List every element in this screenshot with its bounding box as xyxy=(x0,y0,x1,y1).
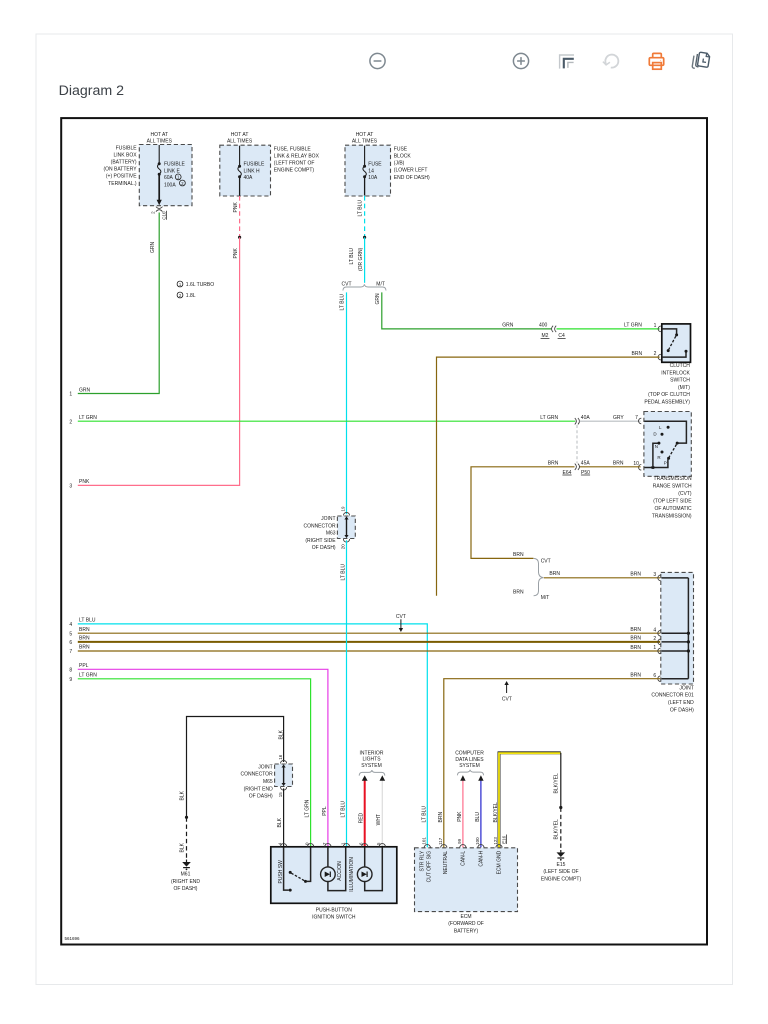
svg-text:7: 7 xyxy=(69,649,72,655)
fusible link box B1 header xyxy=(147,132,173,144)
svg-text:PNK: PNK xyxy=(457,811,463,822)
wire GRN M/T branch xyxy=(382,292,551,329)
wire BRN row6 thick to E01 pin 2 xyxy=(78,641,660,643)
svg-text:CONNECTOR: CONNECTOR xyxy=(241,772,274,778)
svg-text:ALL TIMES: ALL TIMES xyxy=(227,138,253,144)
TRS gear position contacts xyxy=(653,425,669,465)
svg-text:GRN: GRN xyxy=(375,293,381,305)
svg-text:40A: 40A xyxy=(581,415,591,421)
svg-text:LINK E: LINK E xyxy=(164,169,181,175)
switch pin arcs xyxy=(281,844,386,847)
svg-text:ALL TIMES: ALL TIMES xyxy=(147,138,173,144)
wire BRN merged to E01 pin 3 xyxy=(544,577,660,579)
svg-text:60A: 60A xyxy=(164,175,174,181)
svg-text:RANGE SWITCH: RANGE SWITCH xyxy=(653,484,692,490)
joint connector M63 bus arrow xyxy=(344,516,348,538)
ground M61 caption xyxy=(171,872,200,893)
svg-text:CONNECTOR E01: CONNECTOR E01 xyxy=(651,693,694,699)
svg-text:CAN-L: CAN-L xyxy=(460,851,466,866)
svg-text:TERMINAL.): TERMINAL.) xyxy=(108,181,137,187)
joint connector E01 box xyxy=(661,572,694,684)
wire BRN row5 to E01 pin 4 xyxy=(78,632,660,634)
svg-text:8: 8 xyxy=(69,667,72,673)
wire BRN 45A to TRS pin10 xyxy=(580,466,641,468)
svg-text:99: 99 xyxy=(457,838,462,844)
TRS internal common path xyxy=(644,421,686,469)
svg-text:LT GRN: LT GRN xyxy=(540,415,558,421)
fuse 14 value labels xyxy=(368,161,382,181)
toolbar copy-pages button xyxy=(692,51,710,70)
svg-text:GRN: GRN xyxy=(150,242,156,254)
ground E15 caption xyxy=(541,862,582,883)
clutch interlock switch caption xyxy=(644,363,690,406)
svg-text:BRN: BRN xyxy=(630,572,641,578)
fusible link box B1 (battery) xyxy=(139,145,192,206)
svg-text:CVT: CVT xyxy=(342,281,352,287)
junction splice on BLK/YEL xyxy=(559,806,562,809)
svg-text:LT BLU: LT BLU xyxy=(340,294,346,311)
wire BLU CAN-H up arrow xyxy=(478,775,483,847)
svg-text:(BATTERY): (BATTERY) xyxy=(111,160,137,166)
svg-text:M63: M63 xyxy=(326,531,336,537)
svg-text:LT BLU: LT BLU xyxy=(340,801,346,818)
svg-text:2: 2 xyxy=(653,636,656,642)
svg-text:BLK/YEL: BLK/YEL xyxy=(554,773,560,794)
svg-text:CLUTCH: CLUTCH xyxy=(670,363,691,369)
svg-text:JOINT: JOINT xyxy=(258,764,272,770)
fusible link H value labels xyxy=(244,161,266,181)
svg-text:20: 20 xyxy=(341,544,346,550)
joint connector M65 bottom arc xyxy=(281,787,287,790)
svg-text:HOT AT: HOT AT xyxy=(150,132,168,138)
toolbar undo button (disabled) xyxy=(603,55,618,68)
svg-text:RED: RED xyxy=(359,812,365,823)
svg-text:9: 9 xyxy=(69,677,72,683)
wire BRN CVT branch from 45A down and to merge xyxy=(471,467,575,559)
svg-text:CVT: CVT xyxy=(541,558,551,564)
svg-text:1: 1 xyxy=(654,323,657,329)
clutch interlock switch U1 box xyxy=(662,324,691,362)
wire PNK solid down to row 3 xyxy=(78,237,240,485)
joint connector M65 top arc xyxy=(281,760,287,763)
svg-text:STR RLY: STR RLY xyxy=(419,850,425,871)
wire LT GRN row9 down to switch pin 0 xyxy=(78,679,311,847)
svg-text:(OR GRN): (OR GRN) xyxy=(358,247,364,271)
joint connector M65 bus arrow xyxy=(282,764,286,786)
svg-text:ALL TIMES: ALL TIMES xyxy=(352,138,378,144)
svg-text:ECM GND: ECM GND xyxy=(496,850,502,874)
svg-text:FUSE: FUSE xyxy=(368,161,382,167)
interior lights brace xyxy=(359,770,385,776)
interior lights system caption xyxy=(360,750,384,769)
svg-text:HOT AT: HOT AT xyxy=(356,132,374,138)
svg-text:LT GRN: LT GRN xyxy=(624,323,642,329)
svg-text:INTERIOR: INTERIOR xyxy=(360,750,384,756)
svg-text:LINK & RELAY BOX: LINK & RELAY BOX xyxy=(274,154,320,160)
svg-text:BRN: BRN xyxy=(548,460,559,466)
svg-text:PPL: PPL xyxy=(79,663,89,669)
svg-text:GRN: GRN xyxy=(79,387,91,393)
svg-text:TRANSMISSION): TRANSMISSION) xyxy=(652,514,692,520)
svg-text:FUSIBLE: FUSIBLE xyxy=(164,161,186,167)
wire LT BLU dashed below B3 xyxy=(364,196,366,237)
wire LT BLU from M63 to switch pin 1 xyxy=(346,540,348,846)
ground E15 xyxy=(557,850,566,861)
svg-text:IGNITION SWITCH: IGNITION SWITCH xyxy=(312,915,356,921)
computer data lines brace xyxy=(457,770,483,776)
svg-text:BLK: BLK xyxy=(179,842,185,852)
svg-text:BRN: BRN xyxy=(613,460,624,466)
svg-text:BRN: BRN xyxy=(630,645,641,651)
svg-text:PNK: PNK xyxy=(233,202,239,213)
svg-text:PNK: PNK xyxy=(233,248,239,259)
joint connector M65 caption xyxy=(241,764,274,799)
svg-text:PEDAL ASSEMBLY): PEDAL ASSEMBLY) xyxy=(644,400,690,406)
wire BLK switch pin4 to M65 and M61 xyxy=(187,717,284,818)
svg-text:CAN-H: CAN-H xyxy=(478,850,484,866)
E01 pin 3 stub xyxy=(662,577,689,579)
joint connector M63 caption xyxy=(303,516,336,551)
fuse block B3 right caption xyxy=(394,146,430,180)
ECM pin arcs xyxy=(424,844,502,847)
fuse relay box B2 right caption xyxy=(274,146,320,173)
split brace CVT / M/T xyxy=(343,284,386,290)
svg-text:BLK: BLK xyxy=(277,817,283,827)
svg-text:45A: 45A xyxy=(581,460,591,466)
wire LT BLU row4 to ECM pin 101 xyxy=(78,624,428,848)
push-button ignition switch U3 box xyxy=(271,847,397,904)
svg-text:BLK: BLK xyxy=(278,729,284,739)
svg-text:CUT OFF SIG: CUT OFF SIG xyxy=(426,851,432,883)
svg-text:7: 7 xyxy=(635,415,638,421)
joint connector M65 box xyxy=(275,764,293,787)
svg-text:15: 15 xyxy=(278,792,283,798)
joint connector E01 caption xyxy=(651,685,694,713)
fuse relay box B2 header xyxy=(227,132,253,144)
fusible link E value labels xyxy=(164,161,186,188)
svg-text:LT GRN: LT GRN xyxy=(79,415,97,421)
wire PNK CAN-L up arrow xyxy=(460,775,465,847)
wire RED switch pin6 up arrow xyxy=(362,775,368,846)
svg-text:3: 3 xyxy=(653,572,656,578)
svg-text:123: 123 xyxy=(493,837,498,845)
E01 pin 6 stub xyxy=(662,678,689,680)
svg-text:BRN: BRN xyxy=(513,552,524,558)
svg-text:(RIGHT SIDE: (RIGHT SIDE xyxy=(305,538,336,544)
svg-text:3: 3 xyxy=(69,484,72,490)
computer data lines caption xyxy=(455,751,484,770)
svg-text:5: 5 xyxy=(69,631,72,637)
svg-text:CVT: CVT xyxy=(396,614,406,620)
svg-text:M/T: M/T xyxy=(541,595,550,601)
svg-text:6: 6 xyxy=(69,640,72,646)
svg-text:1.8L: 1.8L xyxy=(186,293,196,299)
svg-text:LIGHTS: LIGHTS xyxy=(362,757,381,763)
svg-text:BRN: BRN xyxy=(632,351,643,357)
svg-text:BRN: BRN xyxy=(79,645,90,651)
svg-text:OF DASH): OF DASH) xyxy=(312,545,336,551)
svg-text:M61: M61 xyxy=(181,872,191,878)
ECM signal STR RLY CUT OFF SIG xyxy=(419,850,432,882)
svg-text:(ON BATTERY: (ON BATTERY xyxy=(103,167,137,173)
svg-text:FUSIBLE: FUSIBLE xyxy=(244,161,266,167)
wire LT GRN row2 to 40A connector xyxy=(78,420,575,422)
illumination lamp loop xyxy=(357,848,382,891)
svg-text:SYSTEM: SYSTEM xyxy=(361,763,382,769)
svg-text:M/T: M/T xyxy=(376,281,385,287)
svg-text:(+) POSITIVE: (+) POSITIVE xyxy=(106,174,137,180)
ECM caption xyxy=(448,914,484,935)
wire BLK M65 to switch pin 4 xyxy=(283,788,285,846)
transmission range switch U2 box xyxy=(644,412,691,477)
svg-text:Diagram 2: Diagram 2 xyxy=(59,83,125,99)
svg-text:SWITCH: SWITCH xyxy=(670,378,690,384)
svg-text:NEUTRAL: NEUTRAL xyxy=(443,851,449,875)
svg-text:ENGINE COMPT): ENGINE COMPT) xyxy=(274,168,315,174)
svg-text:(J/B): (J/B) xyxy=(394,161,405,167)
svg-text:HOT AT: HOT AT xyxy=(231,132,249,138)
svg-text:(RIGHT END: (RIGHT END xyxy=(244,786,273,792)
svg-text:N: N xyxy=(655,444,658,449)
svg-text:LT BLU: LT BLU xyxy=(421,806,427,823)
svg-text:40A: 40A xyxy=(244,175,254,181)
joint connector M63 box xyxy=(337,516,355,539)
svg-text:GRY: GRY xyxy=(613,415,624,421)
svg-text:BRN: BRN xyxy=(438,812,444,823)
fusible link box B1 left caption xyxy=(103,145,137,187)
svg-text:SYSTEM: SYSTEM xyxy=(459,763,480,769)
ECM U4 box xyxy=(415,848,518,912)
node CVT arrow label under pin6 wire xyxy=(502,681,512,702)
svg-text:P: P xyxy=(664,461,667,466)
wire PPL row8 down to switch pin 7 xyxy=(78,669,328,846)
svg-text:BRN: BRN xyxy=(79,635,90,641)
transmission range switch caption xyxy=(652,476,692,520)
svg-text:FUSE, FUSIBLE: FUSE, FUSIBLE xyxy=(274,146,312,152)
ground M61 xyxy=(182,860,191,871)
svg-text:TRANSMISSION: TRANSMISSION xyxy=(654,476,692,482)
svg-text:ACC/ON: ACC/ON xyxy=(337,861,343,881)
svg-text:LT BLU: LT BLU xyxy=(349,248,355,265)
connector M2/C4 symbol xyxy=(552,326,557,332)
wire PNK dashed below B2 xyxy=(239,196,241,237)
wire label LT BLU (OR GRN) xyxy=(349,247,364,271)
E01 pin 4 stub xyxy=(662,632,691,635)
svg-text:PNK: PNK xyxy=(79,479,90,485)
connector 40A symbol xyxy=(575,418,580,424)
svg-text:BRN: BRN xyxy=(79,627,90,633)
svg-text:4: 4 xyxy=(653,627,656,633)
svg-text:(LOWER LEFT: (LOWER LEFT xyxy=(394,168,428,174)
svg-text:ENGINE COMPT): ENGINE COMPT) xyxy=(541,876,582,882)
svg-text:FUSE: FUSE xyxy=(394,146,408,152)
svg-text:BLU: BLU xyxy=(475,812,481,822)
svg-text:OF AUTOMATIC: OF AUTOMATIC xyxy=(655,506,692,512)
svg-text:(M/T): (M/T) xyxy=(678,385,690,391)
svg-text:(TOP OF CLUTCH: (TOP OF CLUTCH xyxy=(648,392,690,398)
svg-text:(LEFT END: (LEFT END xyxy=(668,700,694,706)
svg-text:400: 400 xyxy=(539,323,548,329)
svg-text:BLOCK: BLOCK xyxy=(394,154,412,160)
joint connector M63 bottom arc xyxy=(343,539,349,542)
svg-text:10A: 10A xyxy=(368,175,378,181)
svg-text:(RIGHT END: (RIGHT END xyxy=(171,879,200,885)
svg-text:100: 100 xyxy=(475,837,480,845)
toolbar zoom-in button xyxy=(513,53,528,68)
merge brace CVT + M/T xyxy=(534,558,544,595)
wire BLK/YEL dashed to ground xyxy=(560,808,562,851)
E01 internal bus xyxy=(687,578,689,679)
svg-text:19: 19 xyxy=(341,506,346,512)
svg-text:LT BLU: LT BLU xyxy=(79,618,96,624)
connector link dashed xyxy=(576,425,578,463)
svg-text:2: 2 xyxy=(654,351,657,357)
svg-text:6: 6 xyxy=(653,673,656,679)
svg-text:BRN: BRN xyxy=(549,571,560,577)
svg-text:OF DASH): OF DASH) xyxy=(670,707,694,713)
junction splice on PNK xyxy=(238,236,241,239)
push-button ignition switch caption xyxy=(312,907,356,920)
fuse block B3 (J/B) xyxy=(345,145,391,196)
svg-text:2: 2 xyxy=(69,419,72,425)
wire BLK dashed to ground M61 xyxy=(186,817,188,859)
svg-text:GRN: GRN xyxy=(502,323,514,329)
svg-text:101: 101 xyxy=(421,837,426,845)
svg-text:(LEFT SIDE OF: (LEFT SIDE OF xyxy=(543,869,578,875)
fuse fusible link relay box B2 xyxy=(220,145,271,196)
svg-text:BRN: BRN xyxy=(513,590,524,596)
svg-text:117: 117 xyxy=(438,837,443,845)
svg-text:BLK/YEL: BLK/YEL xyxy=(493,802,499,823)
svg-text:E16: E16 xyxy=(501,835,506,844)
svg-text:C10: C10 xyxy=(161,211,166,220)
svg-text:INTERLOCK: INTERLOCK xyxy=(661,370,690,376)
svg-text:PPL: PPL xyxy=(322,806,328,816)
svg-text:M65: M65 xyxy=(263,779,273,785)
svg-text:BRN: BRN xyxy=(630,627,641,633)
push switch contacts xyxy=(284,848,311,892)
fuse 14 symbol xyxy=(363,146,366,196)
joint connector M63 top arc xyxy=(343,512,349,515)
svg-text:JOINT: JOINT xyxy=(679,685,693,691)
svg-text:WHT: WHT xyxy=(376,814,382,825)
junction splice on BLK xyxy=(185,816,188,819)
svg-text:ILLUMINATION: ILLUMINATION xyxy=(349,857,355,892)
svg-text:FUSIBLE: FUSIBLE xyxy=(116,145,138,151)
svg-text:LINK H: LINK H xyxy=(244,169,261,175)
svg-text:(LEFT FRONT OF: (LEFT FRONT OF xyxy=(274,161,315,167)
fusible link H symbol xyxy=(238,146,241,196)
toolbar zoom-out button xyxy=(370,53,385,68)
wire WHT switch pin5 up arrow xyxy=(380,775,386,846)
svg-text:BLK/YEL: BLK/YEL xyxy=(554,819,560,840)
svg-text:JOINT: JOINT xyxy=(321,516,335,522)
svg-text:(TOP LEFT SIDE: (TOP LEFT SIDE xyxy=(653,499,692,505)
svg-text:BRN: BRN xyxy=(630,673,641,679)
wire BRN row7 to E01 pin 1 xyxy=(78,650,660,652)
connector 45A symbol xyxy=(575,464,580,470)
wire LT BLU CVT branch down to M63 xyxy=(346,292,348,514)
fusible link E symbol xyxy=(157,145,162,205)
legend engine variants xyxy=(177,281,214,299)
svg-text:BRN: BRN xyxy=(630,636,641,642)
svg-text:E15: E15 xyxy=(557,862,566,868)
svg-text:14: 14 xyxy=(368,169,374,175)
svg-text:LT BLU: LT BLU xyxy=(340,564,346,581)
svg-text:100A: 100A xyxy=(164,182,176,188)
connector C10 under box B1 xyxy=(150,207,166,220)
svg-text:LT BLU: LT BLU xyxy=(358,200,364,217)
svg-text:LINK BOX: LINK BOX xyxy=(114,152,138,158)
ACC/ON lamp loop xyxy=(321,848,346,891)
wire BRN clutch pin2 to M/T merge xyxy=(437,357,660,596)
svg-text:COMPUTER: COMPUTER xyxy=(455,751,484,757)
svg-text:LT GRN: LT GRN xyxy=(305,799,311,817)
svg-text:561696: 561696 xyxy=(65,936,81,941)
svg-text:4: 4 xyxy=(69,622,72,628)
svg-text:(FORWARD OF: (FORWARD OF xyxy=(448,921,484,927)
svg-text:16: 16 xyxy=(278,754,283,760)
svg-text:END OF DASH): END OF DASH) xyxy=(394,175,430,181)
node CVT arrow label on row5 xyxy=(396,614,406,632)
svg-text:PUSH-BUTTON: PUSH-BUTTON xyxy=(316,907,352,913)
svg-text:1.6L TURBO: 1.6L TURBO xyxy=(186,282,214,288)
fuse block B3 header xyxy=(352,132,378,144)
svg-text:BATTERY): BATTERY) xyxy=(454,929,479,935)
svg-text:CVT: CVT xyxy=(502,696,512,702)
wire GRY to TRS pin 7 xyxy=(580,420,641,422)
diagram frame xyxy=(61,118,707,944)
wire GRN from C10 down to row 1 xyxy=(78,213,159,394)
svg-text:LT GRN: LT GRN xyxy=(79,673,97,679)
wire BLK/YEL ECM pin123 up and right xyxy=(499,753,561,848)
E01 pin 2 stub xyxy=(662,640,691,643)
svg-text:OF DASH): OF DASH) xyxy=(174,886,198,892)
E01 pin 1 stub xyxy=(662,649,691,652)
wire BLK/YEL down to E15 xyxy=(560,753,562,808)
wire LT BLU solid to split xyxy=(364,237,366,282)
wire LT GRN to clutch switch pin 1 xyxy=(557,328,660,330)
svg-text:DATA LINES: DATA LINES xyxy=(455,757,484,763)
toolbar print button (orange) xyxy=(649,53,663,69)
toolbar fit-to-screen button xyxy=(560,55,574,69)
svg-text:ECM: ECM xyxy=(460,914,471,920)
wire BRN E01 pin6 to ECM pin 117 xyxy=(444,679,660,848)
junction splice on LT BLU xyxy=(363,236,366,239)
svg-text:1: 1 xyxy=(69,392,72,398)
svg-text:(CVT): (CVT) xyxy=(678,491,692,497)
svg-text:BLK: BLK xyxy=(179,790,185,800)
svg-text:CONNECTOR: CONNECTOR xyxy=(303,523,336,529)
svg-text:OF DASH): OF DASH) xyxy=(249,794,273,800)
svg-text:1: 1 xyxy=(653,645,656,651)
clutch switch internal contacts xyxy=(662,329,688,357)
